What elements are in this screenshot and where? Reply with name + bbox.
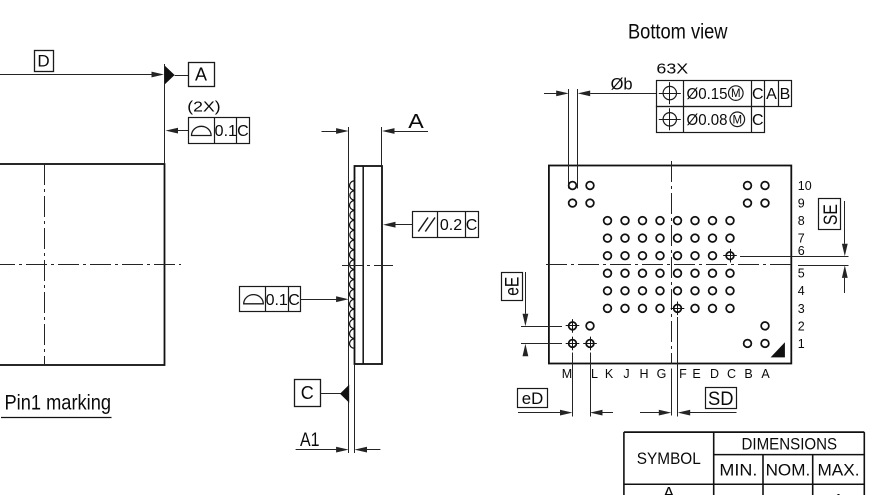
svg-text:C: C <box>727 367 736 381</box>
svg-text:SD: SD <box>708 389 734 410</box>
svg-text:10: 10 <box>798 179 812 193</box>
svg-text:J: J <box>623 367 629 381</box>
svg-text:A: A <box>761 367 770 381</box>
svg-text:C: C <box>466 217 478 234</box>
svg-text:C: C <box>288 292 300 309</box>
svg-text:D: D <box>710 367 719 381</box>
svg-text:eE: eE <box>502 277 524 296</box>
svg-text:Ø0.08: Ø0.08 <box>687 112 728 129</box>
svg-text:D: D <box>37 52 49 71</box>
svg-text:B: B <box>744 367 752 381</box>
svg-text:63X: 63X <box>656 60 688 77</box>
svg-text:K: K <box>605 367 614 381</box>
svg-text:NOM.: NOM. <box>766 461 811 480</box>
svg-text:L: L <box>591 367 598 381</box>
svg-text:A: A <box>408 111 424 133</box>
svg-text:(2X): (2X) <box>187 98 220 115</box>
svg-text:4: 4 <box>798 284 805 298</box>
svg-text:H: H <box>639 367 648 381</box>
svg-text:A: A <box>195 65 207 85</box>
svg-text:M: M <box>562 367 572 381</box>
svg-text:1: 1 <box>834 491 843 495</box>
svg-text:6: 6 <box>798 244 805 258</box>
svg-text:0.1: 0.1 <box>266 292 288 309</box>
svg-text:A: A <box>663 484 675 495</box>
svg-text:Bottom view: Bottom view <box>628 19 728 44</box>
svg-text:9: 9 <box>798 196 805 210</box>
svg-text:F: F <box>679 367 687 381</box>
svg-text:C: C <box>301 383 314 403</box>
svg-text:5: 5 <box>798 267 805 281</box>
svg-text:2: 2 <box>798 319 805 333</box>
svg-text:SE: SE <box>820 204 842 225</box>
svg-text:7: 7 <box>798 232 805 246</box>
svg-text:1: 1 <box>798 337 805 351</box>
svg-text:DIMENSIONS: DIMENSIONS <box>742 435 838 454</box>
svg-text:0.1: 0.1 <box>215 123 237 140</box>
svg-text:Ø0.15: Ø0.15 <box>687 86 728 103</box>
svg-text:eD: eD <box>522 390 544 408</box>
svg-text:C: C <box>752 86 764 103</box>
svg-text:E: E <box>692 367 700 381</box>
svg-text:M: M <box>733 114 743 126</box>
svg-text:MAX.: MAX. <box>818 461 860 480</box>
svg-text:SYMBOL: SYMBOL <box>637 449 701 468</box>
svg-text:G: G <box>657 367 667 381</box>
svg-text:A1: A1 <box>300 430 320 451</box>
svg-text:MIN.: MIN. <box>719 461 757 480</box>
svg-text:Øb: Øb <box>611 74 633 93</box>
svg-text:0.2: 0.2 <box>440 217 462 234</box>
svg-text:8: 8 <box>798 214 805 228</box>
svg-text:B: B <box>780 86 791 103</box>
svg-text:3: 3 <box>798 302 805 316</box>
svg-text:Pin1 marking: Pin1 marking <box>5 391 112 415</box>
svg-text:C: C <box>237 123 249 140</box>
svg-text:M: M <box>731 88 741 100</box>
svg-text:C: C <box>752 112 764 129</box>
svg-text:A: A <box>766 86 777 103</box>
